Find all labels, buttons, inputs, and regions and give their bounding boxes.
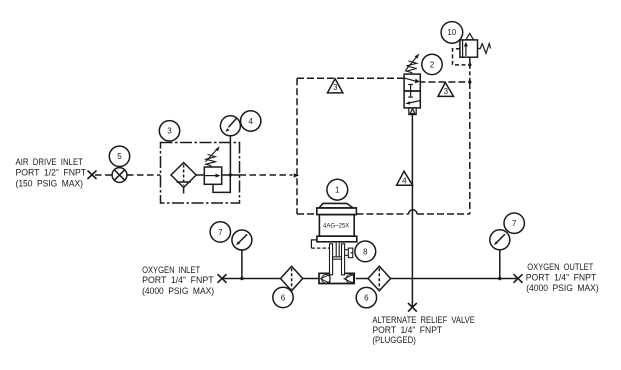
balloon 10: [441, 22, 463, 44]
flag triangle 4: [397, 171, 413, 185]
svg-text:8: 8: [363, 247, 368, 256]
valve 2 pneumatic pilot box: [409, 108, 416, 115]
valve 2 bottom box flow arrow: [405, 100, 420, 104]
gauge 7 right stem: [499, 250, 501, 279]
relief valve 10 vent triangle: [466, 33, 474, 40]
svg-text:10: 10: [447, 28, 456, 37]
port X oxygen outlet: [514, 274, 523, 283]
svg-text:(PLUGGED): (PLUGGED): [372, 335, 416, 345]
balloon 8: [355, 241, 376, 262]
pump piston rod: [336, 242, 339, 257]
regulator spring and adjust arrow: [206, 147, 220, 167]
svg-text:(4000 PSIG MAX): (4000 PSIG MAX): [526, 283, 599, 293]
svg-text:7: 7: [512, 219, 517, 228]
svg-text:7: 7: [218, 228, 223, 237]
pilot circuit dashed box top-right edge: [420, 81, 470, 83]
pipe filter 6 right to oxygen outlet: [391, 278, 518, 280]
pipe dashed relief valve to box corner: [469, 65, 471, 82]
label AIR DRIVE INLET: [16, 157, 87, 188]
check valve left: [321, 274, 331, 283]
pipe dashed box3 to pilot box with arrow: [240, 173, 300, 177]
assembly box 3 (dash-dot): [161, 143, 240, 204]
pipe manifold to filter 6 right: [356, 278, 368, 280]
balloon 3: [159, 121, 179, 141]
junction dot gauge 4 tap: [229, 173, 232, 176]
pipe valve 2 pilot drop to oxygen line and relief port: [411, 114, 413, 307]
svg-text:3: 3: [333, 83, 338, 92]
check valve right: [344, 274, 355, 283]
svg-text:PORT 1/4” FNPT: PORT 1/4” FNPT: [142, 275, 214, 285]
air filter F1: [171, 163, 196, 194]
junction dot box corner: [468, 80, 471, 83]
shutoff valve 5: [112, 168, 127, 183]
pilot circuit dashed box bottom edge right with hop: [356, 210, 469, 214]
balloon 6 right: [356, 287, 376, 307]
gauge 4 stem: [229, 136, 231, 175]
label ALTERNATE RELIEF VALVE: [372, 315, 475, 345]
pipe dashed valve 5 to box 3: [127, 174, 161, 176]
svg-text:OXYGEN INLET: OXYGEN INLET: [142, 265, 201, 275]
pump top flange: [317, 208, 357, 215]
balloon 5: [109, 146, 129, 166]
oxygen filter 6 right: [368, 266, 391, 291]
pressure gauge 7 right: [490, 230, 510, 250]
pump body: [319, 215, 354, 237]
balloon 7 right: [504, 213, 524, 233]
svg-text:4AG–25X: 4AG–25X: [323, 223, 350, 230]
air regulator: [204, 167, 221, 184]
svg-text:1: 1: [335, 186, 340, 195]
port X alternate relief valve: [408, 303, 417, 312]
relief valve 10 drain line: [469, 57, 471, 65]
pipe dashed air inlet to valve 5: [95, 174, 112, 176]
svg-text:6: 6: [281, 293, 286, 302]
balloon 7 left: [210, 222, 230, 242]
regulator feedback loop: [213, 175, 230, 192]
relief valve 10 spring: [478, 44, 491, 54]
pilot circuit dashed box top-left edge: [297, 77, 404, 79]
label OXYGEN INLET: [142, 265, 214, 296]
svg-text:PORT 1/2” FNPT: PORT 1/2” FNPT: [16, 168, 87, 178]
svg-text:5: 5: [117, 152, 122, 161]
pilot valve 2 body: [404, 74, 420, 108]
balloon 6 left: [273, 287, 293, 307]
valve 2 top box blocked port: [408, 85, 413, 92]
gas booster pump 1 cap: [319, 203, 353, 208]
svg-text:6: 6: [364, 294, 369, 303]
valve 2 bottom box blocked port: [408, 91, 413, 97]
svg-text:AIR DRIVE INLET: AIR DRIVE INLET: [16, 157, 84, 167]
flag triangle 3 left: [327, 79, 343, 93]
junction dot gauge 7 right: [498, 277, 501, 280]
junction dot gauge 7 left: [240, 277, 243, 280]
svg-text:3: 3: [444, 87, 449, 96]
relief valve 10 pilot dashed loop: [453, 49, 468, 65]
svg-text:2: 2: [430, 60, 435, 69]
pump left rail: [330, 244, 333, 275]
valve 2 top box flow arrow: [404, 78, 420, 83]
svg-text:3: 3: [167, 127, 172, 136]
balloon 4: [241, 111, 261, 131]
svg-text:4: 4: [248, 117, 253, 126]
svg-text:PORT 1/4” FNPT: PORT 1/4” FNPT: [526, 273, 597, 283]
port X air drive inlet: [88, 171, 97, 180]
svg-text:(4000 PSIG MAX): (4000 PSIG MAX): [142, 286, 214, 296]
svg-text:ALTERNATE RELIEF VALVE: ALTERNATE RELIEF VALVE: [372, 315, 475, 325]
svg-text:(150 PSIG MAX): (150 PSIG MAX): [16, 178, 84, 188]
svg-text:OXYGEN OUTLET: OXYGEN OUTLET: [527, 262, 594, 272]
oxygen filter 6 left: [281, 266, 303, 291]
valve 2 spring and adjust arrow: [405, 54, 419, 74]
balloon 2: [422, 54, 442, 74]
svg-text:4: 4: [402, 177, 407, 186]
pilot circuit dashed box left edge: [296, 78, 298, 214]
pump pilot step: [311, 240, 329, 248]
svg-text:PORT 1/4” FNPT: PORT 1/4” FNPT: [372, 325, 442, 335]
pump right rail: [342, 244, 345, 275]
gauge 7 left stem: [241, 250, 243, 279]
pump manifold block: [319, 273, 354, 283]
pipe filter 6 left to manifold: [303, 278, 319, 280]
port X oxygen inlet: [218, 274, 227, 283]
balloon 1: [327, 179, 348, 200]
pipe filter to regulator: [196, 174, 204, 176]
pump piston bar: [333, 257, 342, 259]
pilot circuit dashed box right edge: [469, 82, 471, 214]
label OXYGEN OUTLET: [526, 262, 599, 293]
bleed valve 8: [345, 248, 353, 258]
flag triangle 3 right: [438, 83, 454, 97]
relief valve 10 body: [460, 40, 478, 57]
pressure gauge 4: [220, 116, 240, 136]
junction dot relief pilot: [468, 63, 471, 66]
pipe oxygen inlet to filter 6: [222, 278, 281, 280]
pump bottom flange: [317, 236, 357, 242]
pressure gauge 7 left: [232, 230, 252, 250]
pipe regulator to junction and box edge: [222, 174, 240, 176]
pilot circuit dashed box bottom edge left: [297, 213, 317, 215]
